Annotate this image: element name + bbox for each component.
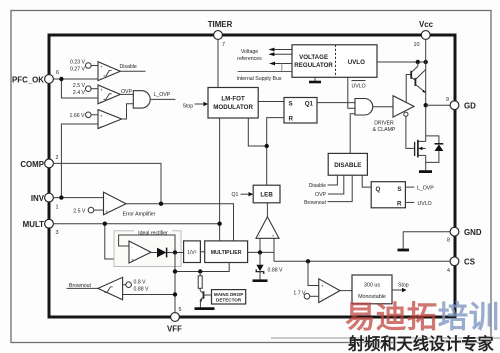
block 1/V^2 [184,241,201,263]
pin 2 COMP [20,155,58,169]
pin 8 GND [447,227,482,243]
svg-text:COMP: COMP [20,160,44,169]
op-amp ideal rectifier [129,241,151,263]
svg-text:2.5 V: 2.5 V [73,83,86,89]
svg-text:射频和天线设计专家: 射频和天线设计专家 [347,335,494,353]
svg-text:+: + [100,114,103,119]
svg-text:L_OVP: L_OVP [417,186,434,192]
zener 0.88V [256,252,283,279]
and gate L_OVP [133,91,150,108]
IC boundary [49,35,455,317]
diode ideal rectifier [151,248,167,258]
wire Vcc pin down [425,40,427,62]
wire Stop input to modulator [183,102,209,110]
svg-text:Brownout: Brownout [69,283,91,289]
svg-text:VFF: VFF [167,325,182,334]
wire disable to and gate [350,114,355,154]
wire comparator to monostable [340,290,352,292]
block LM-FOT MODULATOR [208,88,258,119]
wire comparator3 to and gate [122,104,134,119]
svg-text:S: S [397,186,401,193]
wire VFF net [123,253,230,313]
svg-text:Q: Q [376,186,381,193]
svg-text:GD: GD [464,102,476,111]
svg-text:7: 7 [222,42,225,48]
wire Stop output [392,283,409,293]
svg-text:+: + [100,64,103,69]
wire MULT net [54,118,222,259]
svg-text:4: 4 [447,268,450,274]
svg-text:UVLO: UVLO [352,84,366,90]
wire L_OVP output [151,92,176,99]
svg-text:CS: CS [464,258,475,267]
wire OVP output [120,89,133,95]
ground voltage regulator [309,77,321,82]
wire UVLO to and gate [348,77,355,108]
svg-text:LEB: LEB [260,192,273,199]
svg-text:Stop: Stop [183,104,194,110]
svg-text:+: + [321,284,324,289]
wire Q1 arrow to LEB [232,192,254,198]
diode clamp [426,136,444,163]
svg-text:MODULATOR: MODULATOR [213,104,253,111]
svg-text:Voltage: Voltage [241,49,258,55]
pin 1 INV [31,193,59,210]
svg-text:L_OVP: L_OVP [154,92,171,98]
comparator 1.7V monostable trigger [293,279,340,303]
svg-text:0.88 V: 0.88 V [134,287,150,293]
svg-text:9: 9 [446,97,449,103]
svg-text:references: references [237,56,262,62]
comparator PFC_OK disable (0.23/0.27V) [70,59,120,80]
svg-text:Internal Supply Bus: Internal Supply Bus [237,76,282,82]
svg-text:Q1: Q1 [232,192,239,198]
comparator brownout [98,277,149,300]
wire CS net [274,259,450,285]
ground mains drop [195,307,215,310]
svg-text:VOLTAGE: VOLTAGE [299,54,328,61]
svg-text:S: S [289,101,293,108]
svg-text:TIMER: TIMER [208,20,233,29]
transistor Q1 totem [411,62,418,80]
transistor Q2 totem [415,70,426,94]
comparator 1.66V [70,110,122,129]
wire output node to GD [424,62,450,141]
wire internal supply bus [237,62,293,82]
svg-text:0.23 V: 0.23 V [70,59,86,65]
svg-text:GND: GND [464,228,482,237]
pin 7 TIMER [208,20,233,48]
pin 5 VFF [167,307,182,334]
op-amp error amplifier [73,192,155,217]
wire driver bottom to mosfet gate [406,116,415,148]
pin 9 GD [446,97,476,111]
svg-text:Vcc: Vcc [419,20,434,29]
watermark underline [271,337,500,339]
ground zener [253,279,268,282]
wire multiplier output to PWM comparator and CS [248,238,274,261]
wire PFC_OK net [54,77,98,98]
pin 6 PFC_OK [12,70,59,85]
wire latch2 Q to DISABLE [362,175,371,187]
svg-text:MULTIPLIER: MULTIPLIER [211,250,242,256]
svg-text:8: 8 [447,238,450,244]
wire driver top to transistor base [406,75,411,103]
wire brownout output [67,283,99,289]
svg-text:& CLAMP: & CLAMP [373,127,396,133]
svg-text:Brownout: Brownout [304,200,326,206]
wire TIMER to modulator [217,40,219,88]
wire INV net [54,124,104,200]
svg-text:MAINS DROP: MAINS DROP [214,292,243,297]
wire rectifier output node [167,250,183,254]
block MULTIPLIER [205,241,248,263]
svg-text:0.8 V: 0.8 V [134,280,147,286]
wire Brownout input [304,175,352,206]
svg-text:2.4 V: 2.4 V [73,90,86,96]
node UVLO-bar label [352,81,366,90]
latch Q S R [371,182,405,208]
watermark logo text [345,300,500,334]
svg-text:0.27 V: 0.27 V [70,67,86,73]
svg-text:+: + [100,88,103,93]
wire voltage references arrows [237,48,292,62]
svg-text:R: R [397,200,402,207]
wire latch2 R UVLO [405,201,431,207]
svg-text:DRIVER: DRIVER [374,121,394,127]
wire and gate to driver [373,106,393,108]
wire COMP net [54,163,161,203]
svg-text:UVLO: UVLO [348,59,365,66]
svg-text:易迪拓培训: 易迪拓培训 [345,300,500,334]
svg-text:UVLO: UVLO [418,201,432,207]
pin 3 MULT [23,219,59,236]
and gate driver [355,99,373,116]
svg-text:6: 6 [56,70,59,76]
svg-text:Q1: Q1 [305,101,314,108]
wire 1/V2 to multiplier [200,251,204,253]
comparator PWM [256,217,279,239]
svg-text:Monostable: Monostable [358,294,386,300]
wire latch2 S L_OVP [405,186,434,192]
ground mosfet [419,170,432,173]
wire rectifier feedback loop [119,235,175,253]
pin 10 Vcc [414,20,434,48]
mosfet clamp [415,140,426,170]
svg-text:2.5 V: 2.5 V [73,208,86,214]
svg-text:MULT: MULT [23,220,45,229]
wire UVLO box to Vcc rail [377,60,428,64]
svg-text:DETECTOR: DETECTOR [216,298,242,303]
svg-text:3: 3 [56,230,59,236]
ideal rectifier block [114,228,181,266]
svg-text:OVP: OVP [121,89,132,95]
svg-text:R: R [289,116,294,123]
wire error amplifier output to multiplier [126,202,234,241]
svg-text:5: 5 [179,307,182,313]
svg-text:2: 2 [56,155,59,161]
svg-text:DISABLE: DISABLE [334,162,361,169]
svg-text:1/V²: 1/V² [187,250,197,256]
svg-text:+: + [272,233,275,238]
wire LEB to PWM comparator [266,203,268,217]
svg-text:0.88 V: 0.88 V [268,267,284,273]
latch S R Q1 [284,98,317,124]
wire GND net [398,232,450,250]
wire R net to LEB [248,118,284,186]
block 300us monostable [352,275,392,304]
wire Disable output [120,64,146,71]
svg-text:PFC_OK: PFC_OK [12,76,44,85]
svg-text:1: 1 [56,205,59,211]
svg-text:INV: INV [31,194,45,203]
svg-text:+: + [106,209,109,214]
pin 4 CS [447,257,475,274]
svg-text:Error Amplifier: Error Amplifier [123,211,156,217]
block LEB [253,185,280,203]
svg-text:+: + [131,258,134,263]
svg-text:Stop: Stop [398,283,409,289]
block DISABLE [328,153,367,175]
block voltage regulator / UVLO [292,45,377,78]
wire OVP input [315,175,344,198]
transistor mains drop [200,291,212,308]
driver and clamp [373,96,414,133]
svg-text:300 us: 300 us [364,283,380,289]
svg-text:Disable: Disable [120,64,137,70]
resistor feedforward [198,272,202,291]
wire Disable input [309,175,338,189]
wire modulator to S [258,101,284,103]
svg-text:LM-FOT: LM-FOT [221,96,245,103]
svg-text:Disable: Disable [309,183,326,189]
block MAINS DROP DETECTOR [212,290,246,304]
svg-text:1.66 V: 1.66 V [70,113,86,119]
comparator OVP (2.5/2.4V) [73,83,120,104]
svg-text:REGULATOR: REGULATOR [294,62,333,69]
wire Q1 to and gate [317,102,355,104]
svg-text:10: 10 [414,42,420,48]
svg-text:1.7 V: 1.7 V [293,290,306,296]
svg-text:OVP: OVP [315,192,326,198]
